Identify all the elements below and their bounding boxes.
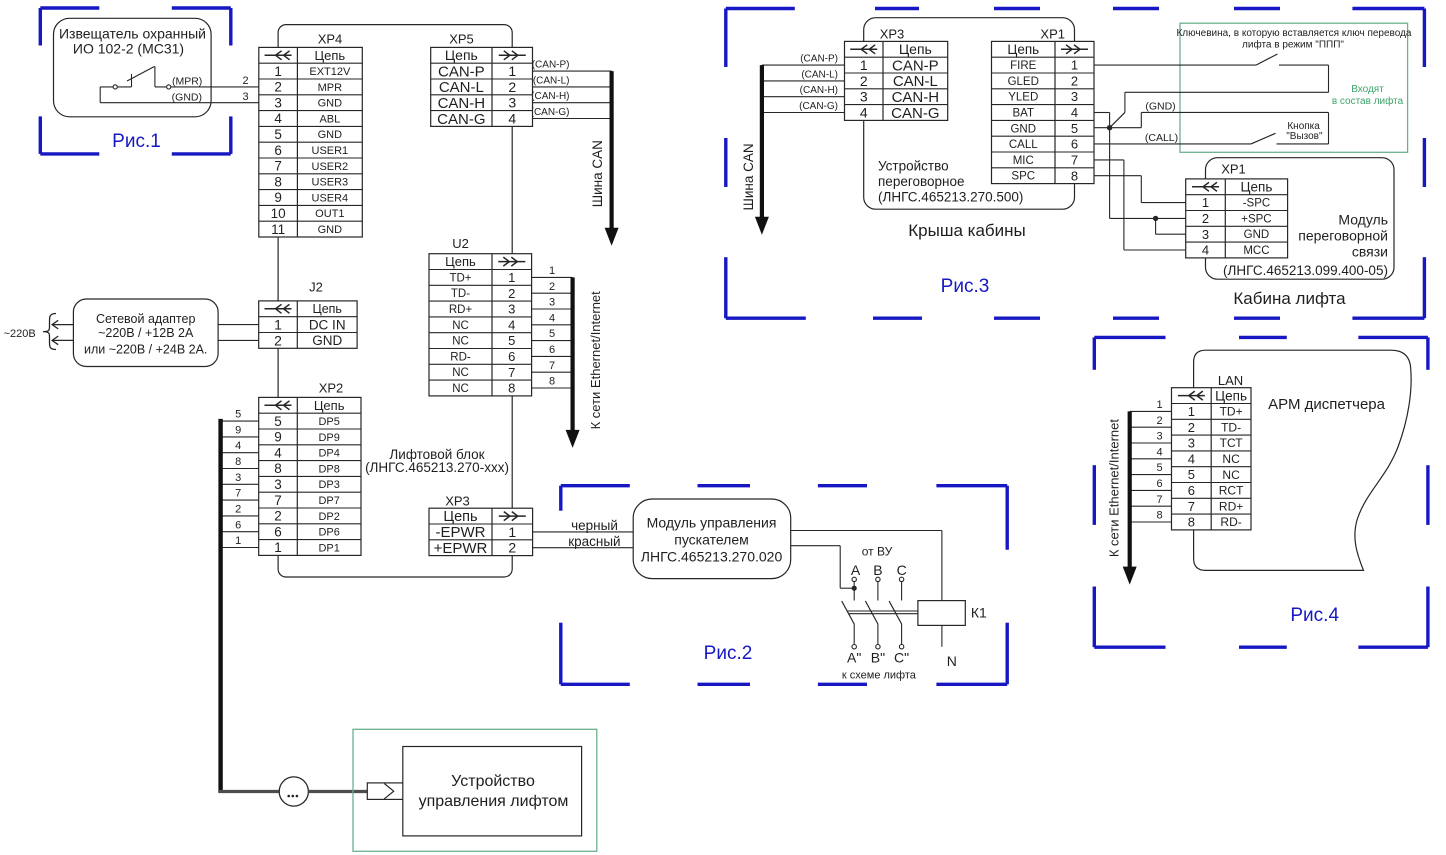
svg-text:3: 3 [1071,89,1078,104]
svg-text:ТСТ: ТСТ [1220,436,1244,450]
svg-text:5: 5 [274,127,282,142]
label phase В [873,562,882,578]
svg-text:2: 2 [508,79,516,95]
wire module to K1 coil [791,531,942,601]
contactor coil K1 box [918,601,965,626]
svg-text:Крыша кабины: Крыша кабины [908,221,1026,240]
svg-text:(MPR): (MPR) [172,75,202,87]
svg-text:MIC: MIC [1013,155,1034,167]
figure frame Fig.3 bottom edge [873,317,1280,320]
pin numbers 1-8 at U2 [549,265,555,388]
figure frame Fig.3 top-left corner [726,9,795,68]
label (CAN-G) intercom [799,101,838,112]
figure frame Fig.4 bottom-right corner [1358,587,1428,648]
svg-text:DP2: DP2 [318,511,339,523]
svg-text:черный: черный [571,518,618,533]
label (CAN-L) intercom [801,69,838,80]
svg-text:4: 4 [235,440,241,452]
svg-text:CAN-G: CAN-G [891,105,939,122]
svg-text:DC IN: DC IN [309,317,346,332]
svg-text:1: 1 [508,63,516,79]
connector LAN label [1218,373,1243,388]
svg-text:Цепь: Цепь [899,41,932,57]
svg-text:TD-: TD- [451,288,470,300]
svg-text:1: 1 [235,535,241,547]
svg-text:1: 1 [860,57,868,73]
wire +SPC to GND module [1156,218,1186,234]
connector XP1 label (intercom) [1040,27,1065,42]
connector XP3 label (intercom) [880,27,905,42]
svg-text:GND: GND [1244,229,1270,241]
connector XP3 table (lift block) [429,508,533,557]
connector J2 table [259,301,357,348]
svg-text:в состав лифта: в состав лифта [1332,95,1404,107]
svg-text:С": С" [894,650,909,666]
label Кабина лифта [1233,289,1346,308]
svg-text:CAN-P: CAN-P [892,57,939,74]
svg-text:2: 2 [274,332,282,348]
svg-text:+SPC: +SPC [1241,213,1271,225]
svg-text:XP1: XP1 [1221,161,1246,176]
connector XP2 table [259,397,361,555]
svg-text:Цепь: Цепь [445,254,476,269]
svg-text:переговорной: переговорной [1298,228,1388,244]
svg-text:6: 6 [549,344,555,356]
svg-text:-EPWR: -EPWR [436,524,486,541]
label Крыша кабины [908,221,1026,240]
CAN bus thick arrow (intercom) [755,65,769,235]
svg-text:GND: GND [1010,123,1036,135]
label (CAN-L) [533,75,570,86]
svg-text:(ЛНГС.465213.270.500): (ЛНГС.465213.270.500) [878,190,1023,205]
junction dot +SPC [1153,216,1158,221]
svg-text:2: 2 [235,503,241,515]
svg-text:6: 6 [235,519,241,531]
figure frame Fig.4 right edge [1426,465,1429,525]
svg-text:МСС: МСС [1243,245,1269,257]
svg-text:4: 4 [274,111,282,126]
svg-text:(CAN-P): (CAN-P) [532,60,570,71]
junction dot phase A [852,586,857,591]
label phase А [851,562,861,578]
svg-text:АРМ диспетчера: АРМ диспетчера [1268,396,1385,413]
svg-text:XP4: XP4 [318,32,343,47]
svg-text:7: 7 [1157,494,1163,506]
svg-text:5: 5 [549,328,555,340]
svg-text:управления лифтом: управления лифтом [419,793,569,810]
svg-text:К сети Ethernet/Internet: К сети Ethernet/Internet [588,291,603,430]
svg-text:2: 2 [860,73,868,89]
svg-text:Цепь: Цепь [1241,180,1273,195]
svg-text:GND: GND [312,333,342,348]
svg-text:Шина CAN: Шина CAN [590,140,605,207]
svg-text:XP2: XP2 [319,381,344,396]
intercom comms module body outline [1206,158,1395,280]
wire +EPWR red [533,547,634,549]
svg-text:DP8: DP8 [318,463,339,475]
svg-text:3: 3 [242,91,248,103]
figure frame Fig.2 bottom edge [698,683,868,686]
svg-text:красный: красный [568,534,620,549]
wire SPC to -SPC [1094,176,1186,203]
figure frame Fig.3 top-right corner [1352,9,1424,68]
svg-text:Цепь: Цепь [443,509,477,525]
svg-text:1: 1 [1071,58,1078,73]
svg-text:6: 6 [274,143,282,158]
svg-text:USER1: USER1 [312,145,349,157]
svg-text:(CAN-L): (CAN-L) [801,69,838,80]
svg-text:С: С [897,562,907,578]
svg-text:3: 3 [549,297,555,309]
svg-text:ЛНГС.465213.270.020: ЛНГС.465213.270.020 [641,548,783,564]
wire module to phase A [791,546,855,589]
label С" [894,650,909,666]
connector XP5 label [449,32,474,47]
svg-text:DP1: DP1 [318,542,339,554]
svg-text:8: 8 [1071,168,1078,183]
connector XP2 label [319,381,344,396]
svg-text:CAN-H: CAN-H [892,89,940,106]
svg-text:А": А" [847,650,861,666]
wire BAT to junction [1094,113,1110,128]
svg-text:4: 4 [1071,105,1078,120]
wire DP cable to splice circle [219,790,279,793]
junction dot BAT-GND [1107,125,1112,130]
svg-text:MPR: MPR [318,82,343,94]
svg-text:8: 8 [549,376,555,388]
svg-text:Кабина лифта: Кабина лифта [1233,289,1346,308]
svg-text:7: 7 [235,488,241,500]
svg-text:1: 1 [1202,195,1209,210]
connector XP1 table (intercom) [992,41,1095,183]
intercom device body outline [864,18,1075,210]
svg-text:Рис.3: Рис.3 [941,276,990,297]
svg-text:2: 2 [1071,74,1078,89]
adapter arrow 2 [52,336,73,345]
svg-text:1: 1 [1188,404,1195,419]
wire FIRE to key switch [1094,64,1256,66]
label Fig.4 [1290,605,1339,626]
svg-text:1: 1 [274,317,282,333]
label Шина CAN (vertical) [590,140,605,207]
svg-text:11: 11 [271,222,285,237]
svg-text:OUT1: OUT1 [315,208,344,220]
wires Ethernet bus to LAN [1130,411,1172,522]
label (CALL) intercom [1145,132,1178,144]
figure frame Fig.2 top edge [698,484,868,487]
svg-text:4: 4 [1188,451,1195,466]
svg-text:(ЛНГС.465213.099.400-05): (ЛНГС.465213.099.400-05) [1223,263,1388,278]
svg-text:NC: NC [1222,468,1240,482]
key switch blade [1256,54,1278,65]
figure frame Fig.4 left edge [1093,465,1096,525]
figure frame Fig.1 top-right corner [172,8,231,46]
svg-text:А: А [851,562,861,578]
svg-text:лифта в режим "ППП": лифта в режим "ППП" [1242,38,1344,50]
svg-text:1: 1 [274,64,282,79]
svg-text:CAN-L: CAN-L [893,73,938,90]
label Лифтовой блок [365,447,509,475]
wire K1 to N [941,625,943,646]
svg-text:8: 8 [1188,515,1195,530]
svg-text:XP5: XP5 [449,32,474,47]
svg-text:2: 2 [1188,420,1195,435]
connector XP1 table (comms module) [1186,179,1288,258]
svg-text:Устройство: Устройство [451,773,535,790]
svg-text:7: 7 [1071,153,1078,168]
svg-text:DP6: DP6 [318,527,339,539]
svg-text:9: 9 [274,430,282,445]
svg-text:3: 3 [274,477,282,492]
svg-text:7: 7 [508,365,515,380]
label (CAN-H) intercom [800,85,838,96]
label phase С [897,562,907,578]
svg-text:8: 8 [1157,510,1163,522]
svg-text:N: N [947,653,957,669]
svg-text:ABL: ABL [319,113,340,125]
label (MPR) [172,75,202,87]
svg-text:2: 2 [508,540,516,556]
label АРМ диспетчера [1268,396,1385,413]
svg-text:GND: GND [318,98,343,110]
wires U2 to Ethernet bus [532,277,573,388]
svg-text:GLED: GLED [1008,76,1039,88]
svg-text:3: 3 [1188,436,1195,451]
wire GND to call button [1141,112,1328,143]
svg-text:Цепь: Цепь [315,48,346,63]
svg-text:USER2: USER2 [312,161,349,173]
svg-text:TD+: TD+ [1220,405,1243,419]
wire GND from detector to XP4 pin 3 [100,87,259,103]
svg-text:EXT12V: EXT12V [309,66,351,78]
svg-text:Рис.1: Рис.1 [112,131,161,152]
svg-text:3: 3 [1157,431,1163,443]
svg-text:(CALL): (CALL) [1145,132,1178,144]
wire splice circle to connector [309,790,368,793]
svg-text:Цепь: Цепь [1007,42,1039,57]
svg-text:CAN-L: CAN-L [439,79,484,96]
label N [947,653,957,669]
svg-text:XP3: XP3 [445,494,470,509]
svg-text:+EPWR: +EPWR [434,540,488,557]
svg-text:Входят: Входят [1351,84,1384,95]
svg-text:Ключевина, в которую вставляет: Ключевина, в которую вставляется ключ пе… [1176,28,1411,39]
label (CAN-P) [532,60,570,71]
label Fig.1 [112,131,161,152]
security detector box (ИО 102-2) [54,18,212,117]
svg-text:2: 2 [274,80,282,95]
figure frame Fig.4 top-right corner [1358,337,1428,369]
svg-text:К сети Ethernet/Internet: К сети Ethernet/Internet [1106,419,1121,558]
label (GND) intercom [1145,101,1175,113]
svg-text:Извещатель охранный: Извещатель охранный [59,25,206,41]
svg-text:RD+: RD+ [1219,499,1243,513]
label Fig.2 [704,643,753,664]
connector XP1 label (comms module) [1221,161,1246,176]
svg-text:В": В" [871,650,885,666]
svg-text:3: 3 [508,302,515,317]
svg-text:DP7: DP7 [318,495,339,507]
svg-text:6: 6 [1071,137,1078,152]
wires CAN bus to XP3 (intercom) [762,65,845,112]
label К сети Ethernet/Internet (vertical, lift block) [588,291,603,430]
svg-text:3: 3 [508,95,516,111]
cable connector symbol [367,783,403,800]
svg-text:(CAN-G): (CAN-G) [531,107,570,118]
label Входят в состав лифта [1332,84,1404,107]
svg-text:10: 10 [271,206,286,221]
svg-text:8: 8 [235,456,241,468]
connector XP5 table [431,47,533,128]
figure frame Fig.2 top-right corner [936,486,1007,550]
svg-text:RD-: RD- [1220,515,1241,529]
svg-text:7: 7 [274,159,282,174]
svg-text:CALL: CALL [1009,139,1038,151]
figure frame Fig.4 bottom-left corner [1094,587,1165,648]
wire key switch return [1110,65,1329,128]
adapter arrow 1 [52,320,73,329]
svg-text:3: 3 [235,472,241,484]
svg-text:или ~220В / +24В 2А.: или ~220В / +24В 2А. [84,343,207,357]
svg-text:6: 6 [1157,478,1163,490]
svg-text:GND: GND [318,224,343,236]
figure frame Fig.4 top-left corner [1094,337,1165,369]
svg-text:Модуль управления: Модуль управления [647,514,777,530]
svg-text:3: 3 [1202,227,1209,242]
label Устройство переговорное [878,159,1023,205]
svg-text:4: 4 [549,312,555,324]
svg-text:4: 4 [274,445,282,460]
svg-text:6: 6 [1188,483,1195,498]
svg-text:4: 4 [1157,446,1163,458]
connector LAN table [1172,388,1252,530]
pin number 3 at XP4 [242,91,248,103]
connector XP4 table [259,47,363,237]
svg-text:~220В: ~220В [4,328,36,340]
svg-text:ИО 102-2 (МС31): ИО 102-2 (МС31) [73,40,184,56]
svg-text:4: 4 [508,317,515,332]
svg-text:DP3: DP3 [318,479,339,491]
svg-text:NC: NC [1222,452,1240,466]
svg-text:2: 2 [1202,211,1209,226]
DP cable thick line [218,419,222,793]
svg-text:XP1: XP1 [1040,27,1065,42]
pin numbers at XP2 cable [235,409,241,547]
svg-text:1: 1 [508,524,516,540]
svg-text:1: 1 [274,540,282,555]
wire CALL to call button [1094,143,1251,145]
svg-text:8: 8 [508,381,515,396]
pin numbers 1-8 at LAN cable [1157,399,1163,522]
label В" [871,650,885,666]
svg-text:DP4: DP4 [318,448,339,460]
svg-text:5: 5 [1071,121,1078,136]
wires XP5 to CAN bus [533,71,612,118]
Ethernet thick arrow (lift block) [566,277,580,448]
svg-text:5: 5 [508,333,515,348]
label (CAN-G) [531,107,570,118]
detector switch contact [100,66,259,89]
lift block body outline (rounded rect) [278,25,512,577]
label Fig.3 [941,276,990,297]
wires XP2 to DP cable [221,421,259,547]
svg-text:4: 4 [860,104,868,120]
call button blade [1251,133,1276,144]
connector XP3 table (intercom) [845,41,948,122]
dispatcher workstation paper shape [1194,350,1412,570]
svg-text:от ВУ: от ВУ [862,545,893,559]
svg-text:5: 5 [1157,462,1163,474]
svg-text:(ЛНГС.465213.270-ххх): (ЛНГС.465213.270-ххх) [365,460,509,475]
svg-text:(GND): (GND) [172,91,202,103]
svg-text:Устройство: Устройство [878,159,949,174]
svg-text:"Вызов": "Вызов" [1286,131,1323,142]
svg-text:(CAN-G): (CAN-G) [799,101,838,112]
svg-text:U2: U2 [452,236,469,251]
figure frame Fig.1 bottom-right corner [172,116,231,153]
wire adapter to J2 pin 2 [218,339,259,341]
figure frame Fig.4 top edge [1239,336,1287,339]
svg-text:2: 2 [242,75,248,87]
contactor linkage double line [847,611,918,614]
svg-text:1: 1 [549,265,555,277]
svg-text:3: 3 [860,89,868,105]
svg-text:В: В [873,562,882,578]
figure frame Fig.3 left edge [724,138,727,187]
svg-text:9: 9 [235,424,241,436]
svg-text:GND: GND [318,129,343,141]
label красный [568,534,620,549]
svg-text:8: 8 [274,174,282,189]
figure frame Fig.2 bottom-left corner [561,623,630,685]
svg-text:XP3: XP3 [880,27,905,42]
connector XP4 label [318,32,343,47]
figure frame Fig.2 top-left corner [561,486,630,511]
figure frame Fig.4 bottom edge [1239,646,1287,649]
wire GND stub [1094,127,1141,129]
svg-text:LAN: LAN [1218,373,1243,388]
connector J2 label [309,280,323,295]
label (CAN-P) intercom [800,54,838,65]
svg-text:7: 7 [1188,499,1195,514]
svg-text:(GND): (GND) [1145,101,1175,113]
svg-text:YLED: YLED [1008,92,1038,104]
pin number 2 at XP4 [242,75,248,87]
label Ключевина [1176,28,1411,51]
label черный [571,518,618,533]
figure frame Fig.3 bottom-right corner [1352,257,1424,318]
svg-text:NC: NC [452,383,469,395]
svg-text:переговорное: переговорное [878,174,964,189]
wire GND junction to +SPC [1110,128,1186,219]
svg-text:CAN-P: CAN-P [438,63,485,80]
svg-text:Цепь: Цепь [314,398,345,413]
svg-text:7: 7 [549,360,555,372]
svg-text:~220В / +12В 2А: ~220В / +12В 2А [98,326,194,340]
Ethernet thick arrow (dispatcher) [1123,411,1137,584]
figure frame Fig.2 bottom-right corner [936,623,1007,685]
svg-text:J2: J2 [309,280,323,295]
svg-text:NC: NC [452,320,469,332]
svg-text:Цепь: Цепь [312,302,341,316]
figure frame Fig.3 top edge [875,7,1280,10]
svg-text:CAN-G: CAN-G [437,111,485,128]
CAN bus thick arrow [605,71,619,246]
svg-text:TD-: TD- [1221,420,1241,434]
svg-text:NC: NC [452,336,469,348]
svg-text:(CAN-H): (CAN-H) [800,85,838,96]
svg-text:USER3: USER3 [312,177,349,189]
